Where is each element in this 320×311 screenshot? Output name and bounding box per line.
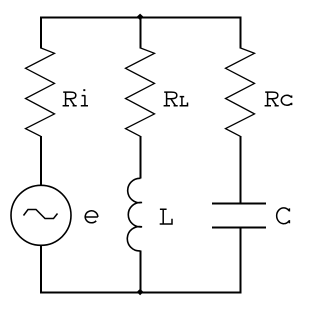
wire left top	[40, 17, 42, 49]
label Rc	[265, 92, 292, 106]
inductor L coil	[127, 178, 142, 251]
resistor Rc	[226, 48, 255, 136]
resistor RL	[126, 48, 155, 136]
capacitor C top plate	[212, 202, 266, 204]
wire bottom rail	[40, 292, 242, 294]
source e sine wave	[24, 210, 58, 219]
source e circle	[11, 185, 71, 245]
wire middle mid	[140, 136, 142, 179]
wire left middle	[40, 136, 42, 186]
label e	[85, 211, 98, 223]
wire middle bottom	[140, 251, 142, 294]
wire right top	[240, 17, 242, 49]
capacitor C bottom plate	[212, 226, 266, 228]
label L	[160, 209, 172, 224]
wire right mid	[240, 136, 242, 203]
wire right bottom	[240, 228, 242, 294]
label C	[277, 208, 290, 224]
wire middle top	[140, 17, 142, 49]
resistor Ri	[26, 48, 55, 136]
node bottom junction	[137, 289, 144, 296]
node top junction	[137, 14, 144, 21]
label RL	[164, 92, 188, 106]
wire top rail	[40, 17, 242, 19]
label Ri	[63, 89, 88, 106]
wire left bottom	[40, 245, 42, 293]
